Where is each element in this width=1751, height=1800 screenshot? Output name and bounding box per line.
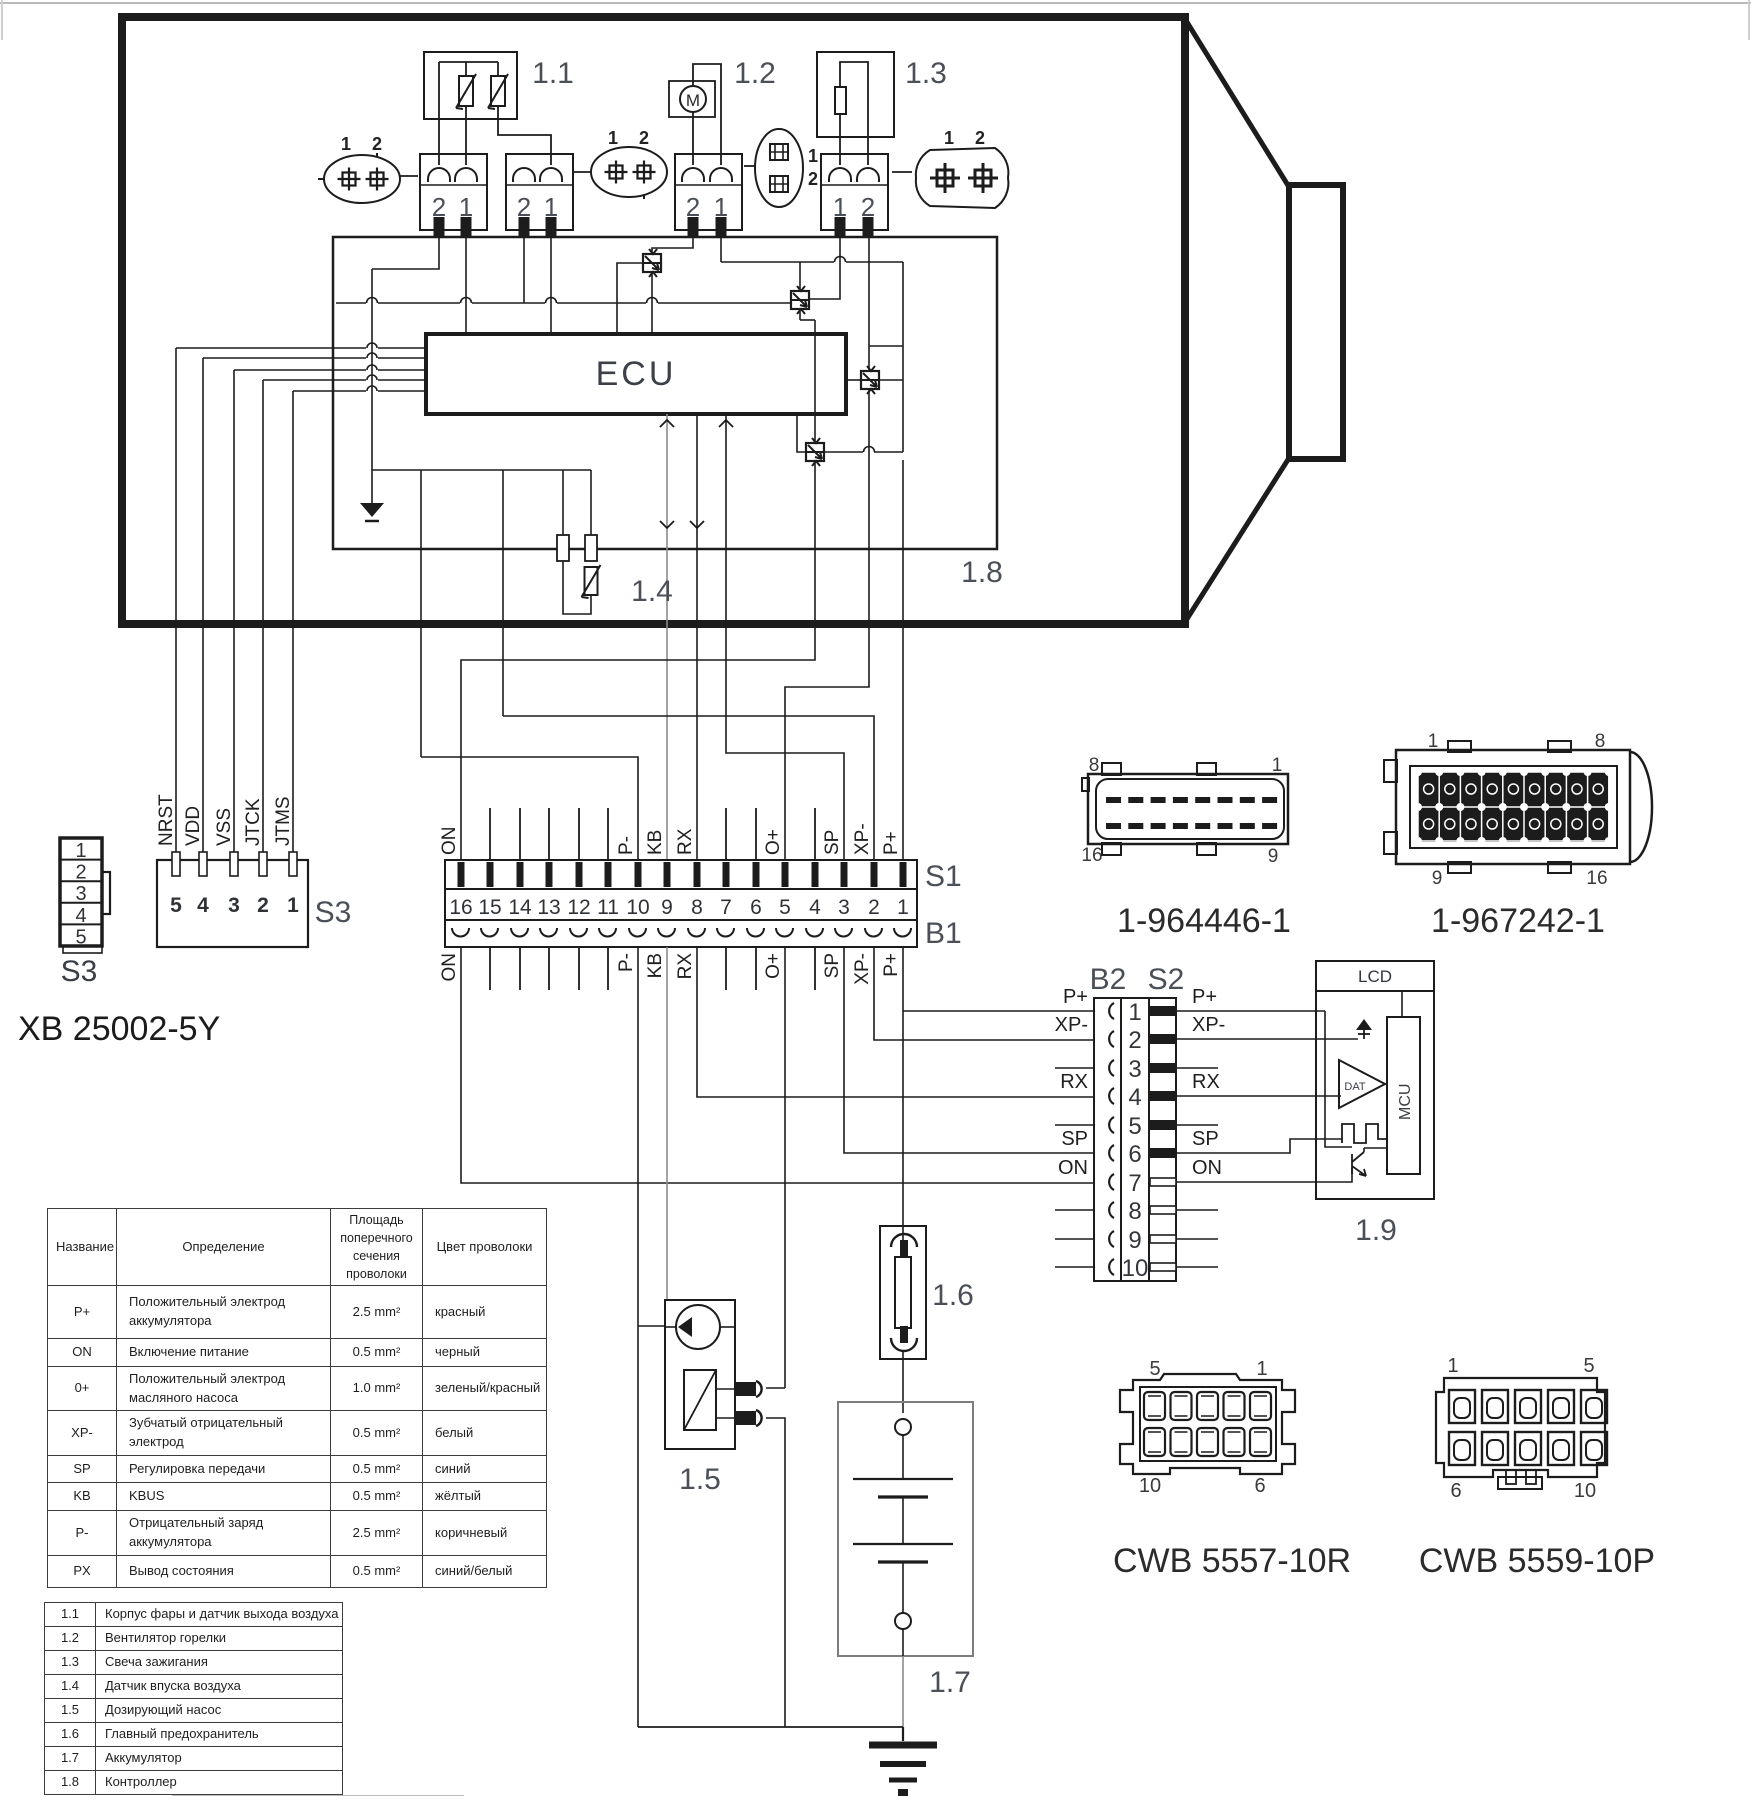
wire RX to B2 pin4 [697, 947, 1094, 1097]
svg-text:5: 5 [170, 894, 182, 917]
svg-text:S3: S3 [315, 896, 352, 929]
wire P- to pump [638, 1325, 665, 1327]
svg-text:1.5: 1.5 [679, 1463, 721, 1496]
svg-text:9: 9 [1432, 868, 1443, 889]
svg-text:2: 2 [639, 128, 649, 148]
wire fuse to battery [902, 1359, 904, 1413]
svg-text:M: M [686, 91, 700, 110]
S2 wires to LCD [1176, 1011, 1358, 1267]
wire Q4 gate to ECU bottom [797, 414, 806, 452]
svg-text:3: 3 [838, 896, 850, 919]
control panel LCD 1.9 [1316, 961, 1434, 1199]
svg-text:5: 5 [75, 926, 86, 948]
svg-text:1: 1 [341, 134, 351, 154]
wire KB down to pump [666, 947, 668, 1300]
wire P- down [637, 947, 639, 1727]
svg-text:4: 4 [809, 896, 821, 919]
svg-text:O+: O+ [763, 953, 784, 979]
wire O+ to pump terminal [766, 1387, 785, 1389]
svg-text:1-967242-1: 1-967242-1 [1431, 902, 1605, 940]
wire Q2 to Q4 [800, 309, 815, 443]
wire O+ upper [785, 389, 869, 860]
svg-text:SP: SP [1192, 1128, 1219, 1150]
svg-text:1: 1 [1272, 755, 1283, 776]
S1 pin numbers 16..1 [445, 889, 917, 920]
svg-text:10: 10 [1574, 1480, 1596, 1502]
svg-text:S2: S2 [1148, 963, 1185, 996]
wire O+ down to pump [784, 947, 786, 1388]
svg-text:ON: ON [1192, 1157, 1222, 1179]
plug oval O2 with pins 1 2 [573, 128, 667, 199]
svg-text:3: 3 [228, 894, 240, 917]
svg-text:6: 6 [1450, 1480, 1461, 1502]
page border frame [0, 0, 1751, 40]
svg-text:2: 2 [257, 894, 269, 917]
svg-text:1.8: 1.8 [961, 556, 1003, 589]
amplifier DAT [1339, 1060, 1387, 1108]
net labels above S1 [439, 823, 902, 855]
plug oval O1 with pins 1 2 [318, 134, 418, 203]
svg-text:1: 1 [808, 146, 818, 166]
connector X1.1b (2 1) [506, 154, 573, 238]
wire C3 pin2 to Q1 [652, 238, 693, 254]
svg-text:RX: RX [675, 828, 696, 855]
wire C2 pin1 to ECU [550, 238, 552, 334]
connector drawing 1-967242-1 [1384, 731, 1652, 889]
svg-text:XP-: XP- [852, 953, 873, 985]
wire C3 pin1 to P+ rail y262 [721, 238, 903, 452]
wire P+ upper [902, 460, 904, 860]
wire Q3 to ECU [846, 379, 861, 381]
wire gate rail y303 to Q2 [336, 298, 791, 304]
battery 1.7 [838, 1402, 973, 1656]
connector X1.1a (2 1) [420, 154, 487, 238]
sensor box 1.1 (two thermistors) [424, 52, 551, 165]
svg-text:7: 7 [720, 896, 732, 919]
connector X1.2 (2 1) [675, 154, 742, 238]
wire definition table [47, 1208, 547, 1588]
dosing pump 1.5 [665, 1300, 762, 1449]
svg-text:5: 5 [1149, 1358, 1160, 1380]
svg-text:1: 1 [1128, 999, 1141, 1026]
svg-text:6: 6 [750, 896, 762, 919]
output transistor symbol [1352, 1148, 1387, 1176]
svg-text:XP-: XP- [1055, 1014, 1088, 1036]
svg-text:10: 10 [1139, 1475, 1161, 1497]
wire Q1 to ECU [651, 272, 653, 334]
wire Q4 to P+ column [824, 447, 903, 452]
svg-text:RX: RX [675, 953, 696, 980]
svg-text:1.3: 1.3 [905, 57, 947, 90]
svg-text:JTMS: JTMS [273, 796, 294, 846]
svg-text:SP: SP [822, 830, 843, 855]
connector S1 pin header [445, 860, 917, 889]
svg-text:VSS: VSS [214, 808, 235, 846]
svg-text:NRST: NRST [156, 794, 177, 846]
spare pin stubs B1 [490, 947, 815, 990]
wire ON to B2 pin7 [461, 947, 1094, 1183]
controller box 1.8 [333, 237, 997, 549]
svg-text:10: 10 [1122, 1255, 1149, 1282]
svg-text:1.1: 1.1 [532, 57, 574, 90]
plug oval O3 (vertical) pins 1 2 [744, 129, 818, 207]
svg-text:8: 8 [1128, 1198, 1141, 1225]
svg-text:9: 9 [1268, 846, 1279, 867]
svg-text:S3: S3 [61, 955, 98, 988]
main fuse 1.6 [880, 1226, 926, 1359]
svg-text:1: 1 [897, 896, 909, 919]
power flag symbol [1356, 1019, 1372, 1039]
svg-text:4: 4 [197, 894, 209, 917]
svg-text:1: 1 [944, 128, 954, 148]
svg-text:RX: RX [1060, 1071, 1088, 1093]
svg-text:1.2: 1.2 [734, 57, 776, 90]
connector drawing CWB 5559-10P [1436, 1355, 1607, 1502]
wire Q3 to P+ rail [879, 379, 903, 381]
spare pin stubs S1 [490, 808, 815, 860]
connector drawing 1-964446-1 [1081, 755, 1288, 867]
svg-text:KB: KB [645, 953, 666, 978]
svg-text:2: 2 [808, 169, 818, 189]
svg-text:8: 8 [691, 896, 703, 919]
svg-text:ON: ON [439, 827, 460, 856]
svg-text:1.7: 1.7 [929, 1666, 971, 1699]
svg-text:P+: P+ [881, 953, 902, 977]
svg-text:2: 2 [1128, 1027, 1141, 1054]
wire P+ branch to B2 pin1 [903, 1010, 1094, 1012]
ground symbol (battery) [869, 1727, 937, 1796]
ground symbol in controller [360, 503, 384, 521]
clock waveform symbol [1342, 1124, 1387, 1143]
connector S3 schematic box [157, 852, 308, 947]
svg-text:KB: KB [645, 830, 666, 855]
svg-text:XP-: XP- [1192, 1014, 1225, 1036]
wire XP- upper [503, 716, 874, 860]
svg-text:1.4: 1.4 [631, 575, 673, 608]
net labels NRST VDD VSS JTCK JTMS [156, 794, 294, 846]
connector S3 physical [60, 838, 110, 953]
net labels below B1 [439, 953, 902, 985]
svg-text:SP: SP [1061, 1128, 1088, 1150]
transistor Q3 [861, 366, 879, 394]
svg-text:P+: P+ [1192, 986, 1217, 1008]
ECU U1 [426, 334, 846, 414]
svg-text:8: 8 [1089, 755, 1100, 776]
wire SP from ECU down [719, 414, 844, 860]
svg-text:16: 16 [1081, 845, 1102, 866]
wire Q1 gate to ECU [617, 263, 643, 334]
svg-text:B1: B1 [925, 917, 962, 950]
svg-text:S1: S1 [925, 860, 962, 893]
svg-text:P+: P+ [1063, 986, 1088, 1008]
svg-text:9: 9 [1128, 1227, 1141, 1254]
svg-text:16: 16 [449, 896, 472, 919]
svg-text:13: 13 [537, 896, 560, 919]
svg-text:15: 15 [478, 896, 501, 919]
svg-text:DAT: DAT [1344, 1081, 1365, 1093]
svg-text:VDD: VDD [183, 806, 204, 846]
svg-text:1: 1 [1428, 731, 1439, 752]
svg-text:ECU: ECU [596, 355, 677, 393]
transistor Q1 [643, 249, 661, 277]
svg-text:LCD: LCD [1358, 967, 1392, 986]
svg-text:XP-: XP- [852, 823, 873, 855]
svg-text:6: 6 [1254, 1475, 1265, 1497]
transistor Q2 [791, 286, 809, 314]
svg-text:5: 5 [1583, 1355, 1594, 1377]
wire pump return down [766, 1418, 785, 1727]
svg-text:12: 12 [567, 896, 590, 919]
svg-text:10: 10 [626, 896, 649, 919]
connector B2/S2 [1094, 998, 1176, 1282]
svg-text:1: 1 [1256, 1358, 1267, 1380]
wire C4 pin2 to Q3 [868, 238, 870, 371]
svg-text:O+: O+ [763, 829, 784, 855]
svg-text:P-: P- [616, 953, 637, 972]
svg-text:9: 9 [661, 896, 673, 919]
connector X1.3 (1 2) [821, 154, 888, 238]
svg-text:MCU: MCU [1397, 1084, 1414, 1120]
B2 left spare stubs [1055, 1068, 1094, 1267]
svg-text:14: 14 [508, 896, 532, 919]
svg-text:1-964446-1: 1-964446-1 [1117, 902, 1291, 940]
svg-text:JTCK: JTCK [243, 798, 264, 846]
glow plug 1.3 [817, 52, 894, 165]
svg-text:SP: SP [822, 953, 843, 978]
wire C4 pin1 to Q2 [809, 238, 840, 299]
svg-text:CWB 5557-10R: CWB 5557-10R [1113, 1542, 1351, 1580]
svg-text:4: 4 [1128, 1084, 1141, 1111]
svg-text:1: 1 [608, 128, 618, 148]
wire XP- to B2 pin2 [874, 947, 1094, 1040]
B2 left net labels [1055, 986, 1088, 1179]
svg-text:XB 25002-5Y: XB 25002-5Y [18, 1010, 220, 1048]
svg-text:16: 16 [1586, 868, 1607, 889]
wire RX from ECU down [690, 414, 704, 860]
svg-text:3: 3 [1128, 1056, 1141, 1083]
motor M 1.2 (burner fan) [669, 64, 721, 165]
connector drawing CWB 5557-10R [1120, 1358, 1295, 1497]
cropped grey row at page bottom [172, 1795, 464, 1800]
heater body outline 1 [122, 17, 1343, 624]
air intake sensor 1.4 [563, 561, 601, 614]
connector B1 socket strip [445, 920, 917, 947]
svg-text:RX: RX [1192, 1071, 1220, 1093]
wire P- upper [421, 757, 638, 860]
svg-text:P-: P- [616, 836, 637, 855]
svg-text:5: 5 [1128, 1113, 1141, 1140]
svg-text:1: 1 [287, 894, 299, 917]
S2 right net labels [1192, 986, 1225, 1179]
wire SP to B2 pin6 [844, 947, 1094, 1153]
component legend table [44, 1602, 343, 1795]
svg-text:B2: B2 [1090, 963, 1127, 996]
transistor Q4 [806, 438, 824, 466]
wire ON upper [461, 461, 815, 860]
svg-text:2: 2 [868, 896, 880, 919]
wire battery to ground [902, 1656, 904, 1741]
svg-text:8: 8 [1595, 731, 1606, 752]
wire P- return [638, 1726, 903, 1728]
wires NRST VDD VSS JTCK JTMS to ECU [176, 343, 426, 858]
svg-text:CWB 5559-10P: CWB 5559-10P [1419, 1542, 1655, 1580]
wire C2 pin2 stub to gate rail [523, 238, 525, 303]
ground rail to sensor 1.4 [372, 470, 591, 757]
svg-text:1.6: 1.6 [932, 1279, 974, 1312]
svg-text:2: 2 [372, 134, 382, 154]
svg-text:ON: ON [439, 953, 460, 982]
wire ground stem [371, 269, 373, 503]
wire P+ down to fuse [902, 947, 904, 1226]
svg-text:P+: P+ [881, 831, 902, 855]
svg-text:7: 7 [1128, 1170, 1141, 1197]
svg-text:ON: ON [1058, 1157, 1088, 1179]
controller bottom feedthrough pins [557, 535, 597, 561]
svg-text:1: 1 [1447, 1355, 1458, 1377]
svg-text:11: 11 [597, 896, 619, 919]
wire C1 pin1 to ECU [465, 238, 467, 334]
svg-text:2: 2 [975, 128, 985, 148]
svg-text:1.9: 1.9 [1355, 1214, 1397, 1247]
wire KB from ECU down [660, 414, 674, 860]
wire C1 pin2 to ground stem [372, 238, 439, 269]
svg-text:6: 6 [1128, 1141, 1141, 1168]
plug oval O4 with pins 1 2 [892, 128, 1008, 208]
svg-text:5: 5 [779, 896, 791, 919]
